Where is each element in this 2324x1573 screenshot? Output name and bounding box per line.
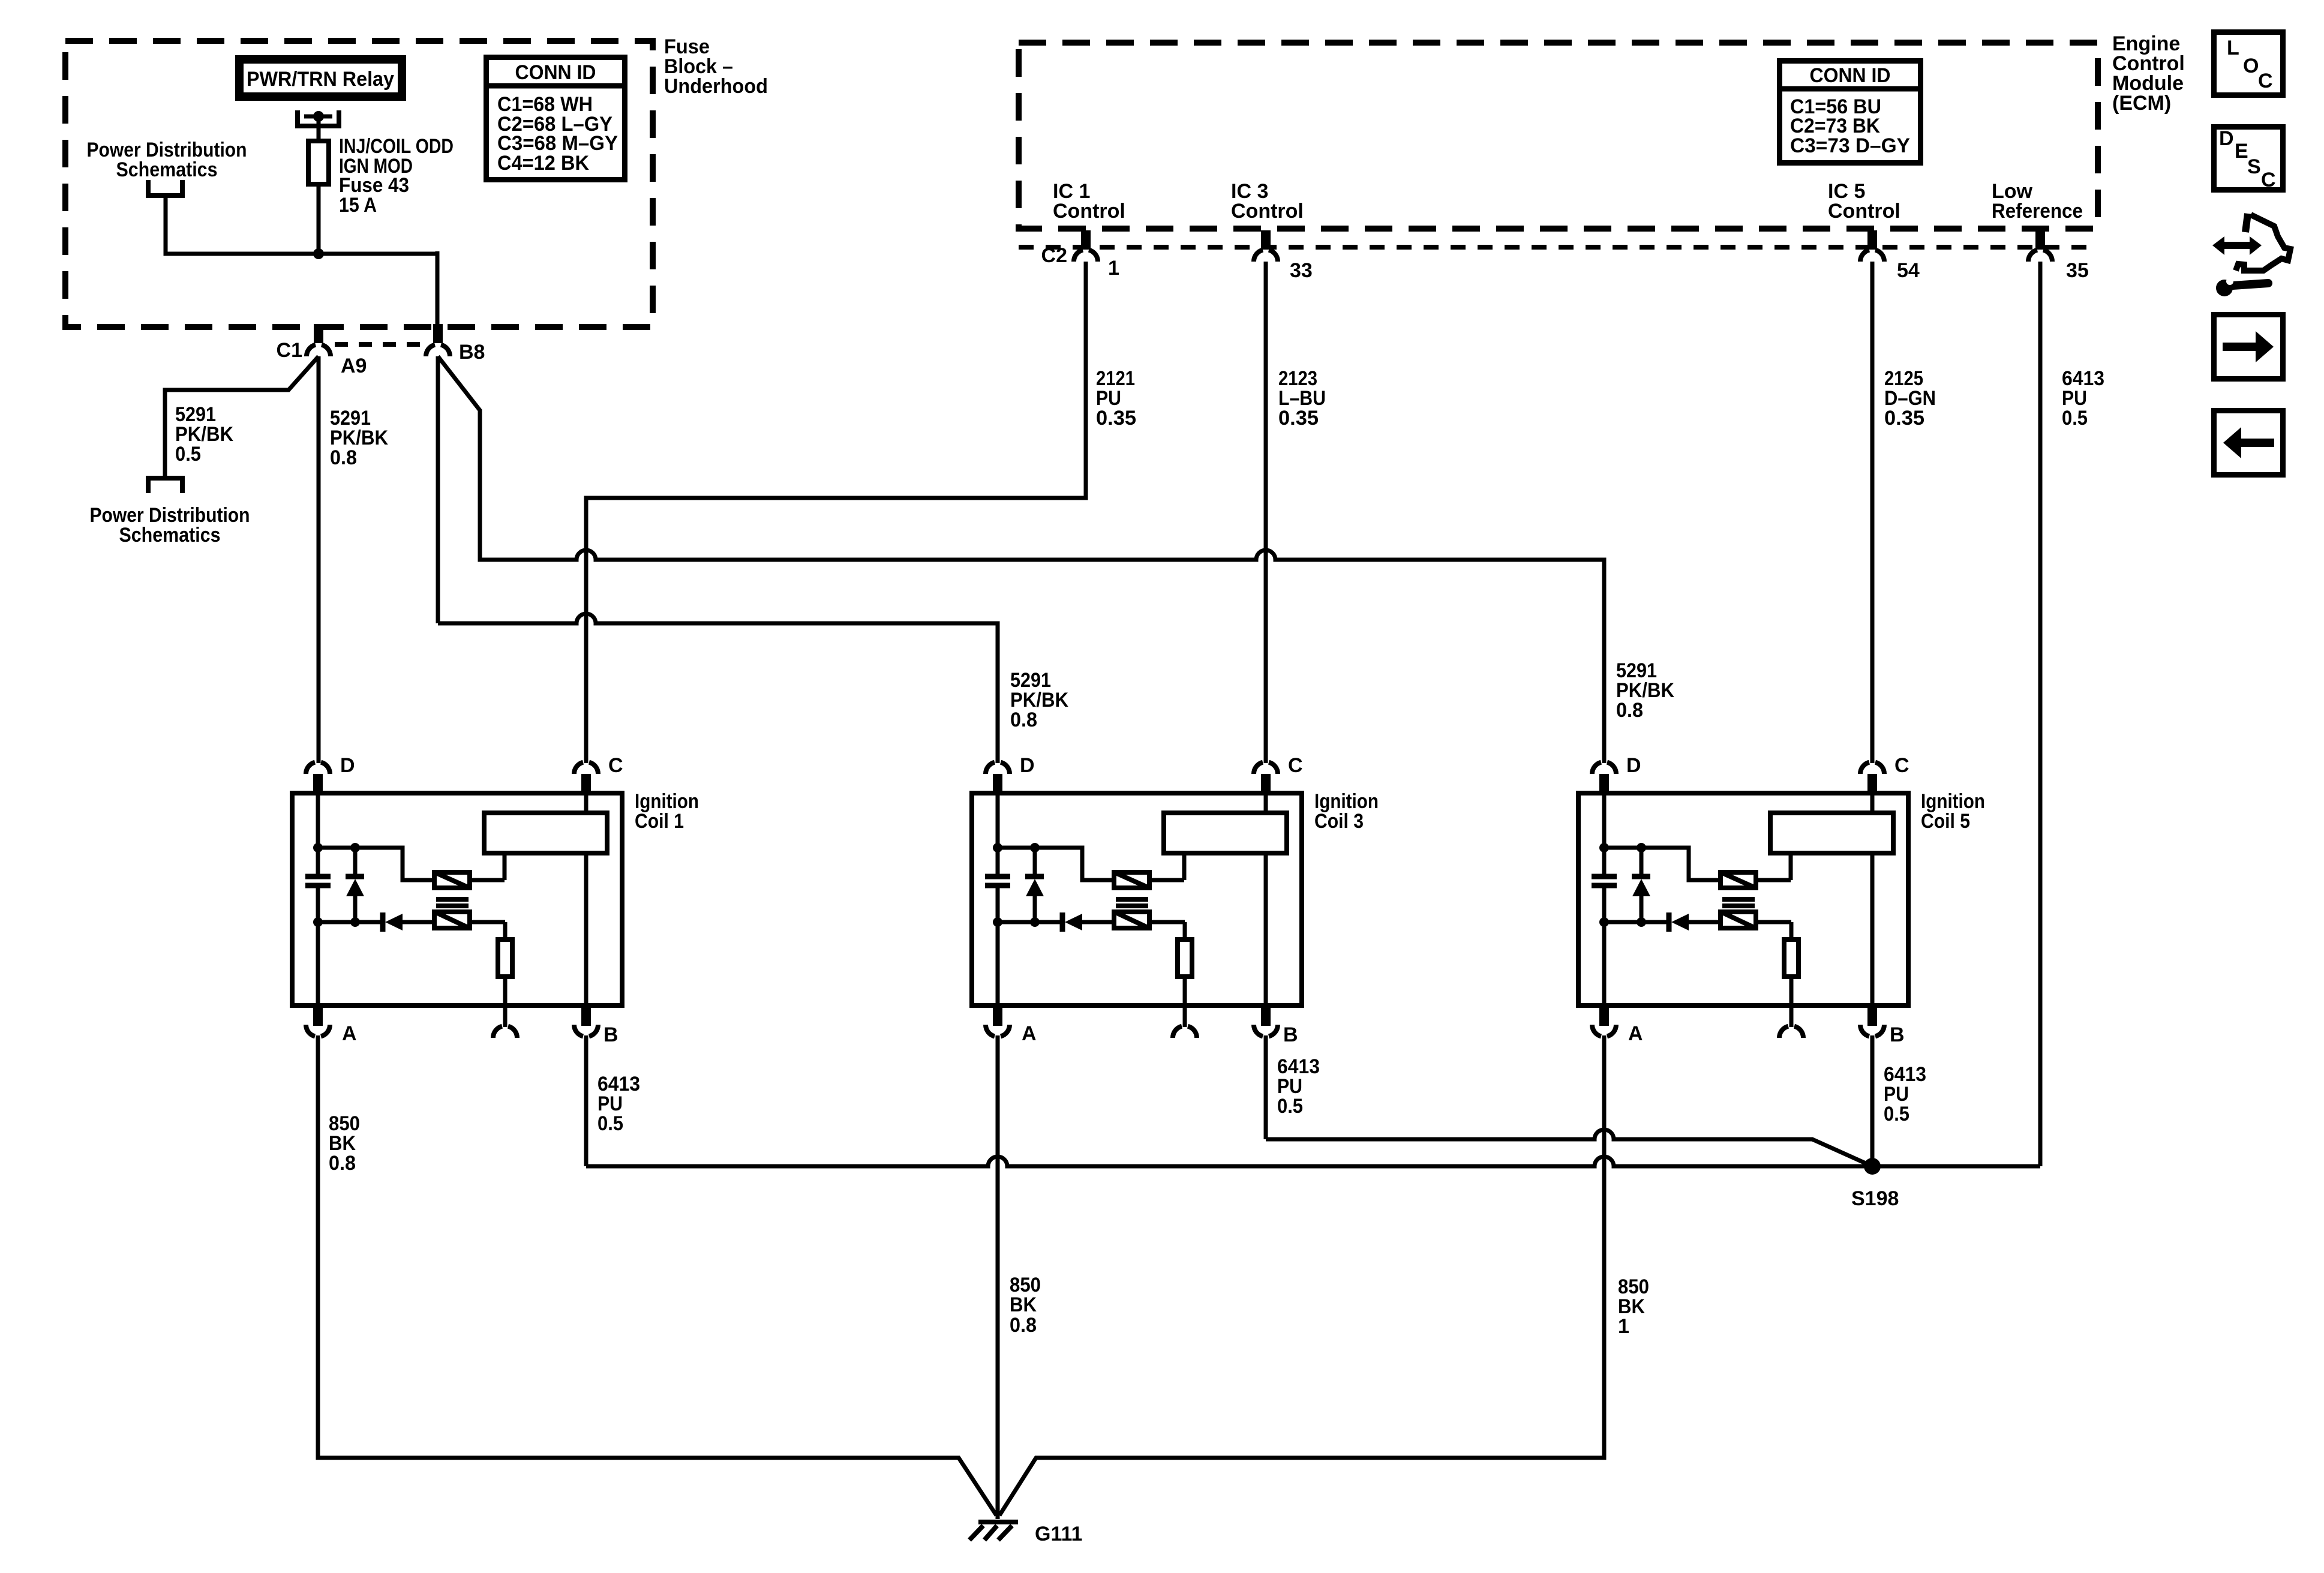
svg-text:15 A: 15 A	[339, 194, 377, 217]
svg-text:Control: Control	[1828, 200, 1900, 223]
label Low Reference	[1992, 180, 2083, 223]
wire 6413 PU low reference from pin 35	[2038, 262, 2043, 1166]
svg-text:D: D	[1020, 754, 1035, 777]
coil 1 pin B connector	[574, 1007, 618, 1046]
svg-text:0.5: 0.5	[1277, 1095, 1303, 1118]
ignition coil 3 box	[972, 790, 1379, 1005]
svg-text:1: 1	[1108, 257, 1119, 280]
coil 1 pin A connector	[306, 1007, 357, 1045]
coil 3 lower internal wire	[998, 920, 1112, 924]
coil 5 secondary winding block	[1758, 813, 1893, 880]
coil 3 C rail wire	[1264, 792, 1268, 1008]
coil 5 internal D rail wire	[1599, 792, 1609, 1008]
svg-text:Schematics: Schematics	[116, 158, 218, 181]
wire 5291 PK/BK 0.5 to power distribution	[165, 356, 319, 478]
coil 1 C rail wire	[584, 792, 588, 1008]
coil 5 unterminated secondary connector	[1779, 1008, 1803, 1038]
svg-text:B: B	[1283, 1023, 1298, 1046]
wire label 6413 PU 0.5 (low reference)	[2062, 367, 2104, 430]
dashed connector line A9	[335, 344, 422, 377]
wire label 2125 D-GN 0.35	[1884, 367, 1936, 430]
coil 5 diode	[1669, 912, 1689, 932]
splice S198	[1851, 1158, 1899, 1210]
coil 1 zener diode	[346, 848, 364, 927]
wire 6413 PU from coil 5 B to splice S198	[1870, 1035, 1875, 1166]
coil 1 internal D rail wire	[313, 792, 323, 1008]
wire label 5291 PK/BK 0.8 (coil 5)	[1616, 659, 1674, 722]
svg-text:0.8: 0.8	[329, 1152, 356, 1175]
coil 3 pin B connector	[1254, 1007, 1298, 1046]
coil 3 pin C connector	[1254, 754, 1303, 793]
svg-text:33: 33	[1290, 259, 1313, 282]
coil 3 resistor	[1152, 922, 1192, 1008]
icon arrow left box	[2214, 411, 2283, 475]
coil 5 C rail wire	[1870, 792, 1875, 1008]
wire label 6413 PU 0.5 (coil 3)	[1277, 1055, 1320, 1118]
svg-text:C: C	[2261, 169, 2276, 191]
wire 850 BK 1 from coil 5 A to G111	[999, 1035, 1604, 1515]
coil 3 igniter secondary driver box	[1114, 912, 1149, 928]
svg-text:0.35: 0.35	[1278, 407, 1319, 430]
svg-text:C: C	[1894, 754, 1909, 777]
coil 1 unterminated secondary connector	[493, 1008, 517, 1038]
icon LOC box	[2214, 32, 2283, 95]
svg-text:C: C	[1288, 754, 1303, 777]
wire label 6413 PU 0.5 (coil 1)	[597, 1073, 640, 1135]
coil 5 capacitor	[1592, 876, 1617, 885]
svg-text:0.5: 0.5	[597, 1112, 623, 1135]
ignition coil 5 box	[1578, 790, 1985, 1005]
fuse block underhood dashed box	[65, 41, 653, 327]
wire 2121 PU from pin 1 to coil 1 C	[586, 262, 1086, 763]
svg-text:0.35: 0.35	[1096, 407, 1136, 430]
svg-text:A9: A9	[341, 355, 367, 377]
coil 3 unterminated secondary connector	[1173, 1008, 1197, 1038]
wire 850 BK 0.8 from coil 3 A to G111	[996, 1035, 1000, 1519]
wire 6413 PU from coil 1 B to splice S198	[586, 1035, 2040, 1166]
ground G111	[969, 1522, 1082, 1545]
coil 3 transformer core bars	[1116, 899, 1148, 906]
svg-text:35: 35	[2066, 259, 2089, 282]
svg-text:C1: C1	[277, 339, 302, 362]
icon arrow right box	[2214, 315, 2283, 379]
wire 2125 D-GN from pin 54 to coil 5 C	[1870, 262, 1875, 763]
coil 1 capacitor	[305, 876, 331, 885]
svg-text:D: D	[340, 754, 355, 777]
fuse F43 INJ/COIL ODD IGN MOD	[308, 141, 329, 255]
svg-text:C3=73 D–GY: C3=73 D–GY	[1790, 134, 1910, 157]
svg-text:0.5: 0.5	[1884, 1103, 1909, 1125]
svg-text:D: D	[1626, 754, 1641, 777]
coil 3 pin D connector	[986, 754, 1035, 793]
svg-text:Coil 1: Coil 1	[635, 810, 684, 833]
coil 3 capacitor	[985, 876, 1010, 885]
label IC 1 Control	[1053, 180, 1125, 223]
svg-text:A: A	[1628, 1022, 1643, 1045]
coil 3 igniter primary driver box	[1114, 872, 1149, 888]
svg-text:S: S	[2247, 155, 2261, 178]
svg-text:C2: C2	[1041, 244, 1067, 267]
wire B8 branch to coil 5 D	[438, 356, 1604, 763]
svg-text:1: 1	[1618, 1315, 1629, 1338]
coil 1 igniter primary driver box	[434, 872, 470, 888]
wire label 5291 PK/BK 0.5	[175, 403, 233, 466]
wire 6413 PU from coil 3 B to splice S198	[1266, 1035, 1872, 1166]
svg-text:CONN ID: CONN ID	[515, 61, 596, 84]
svg-text:Coil 5: Coil 5	[1921, 810, 1970, 833]
wire label 6413 PU 0.5 (coil 5)	[1884, 1063, 1926, 1125]
coil 5 pin C connector	[1860, 754, 1909, 793]
wire label 2123 L-BU 0.35	[1278, 367, 1326, 430]
wire label 2121 PU 0.35	[1096, 367, 1136, 430]
ECM title	[2112, 32, 2185, 115]
ECM connector C2 dotted line	[1019, 244, 2096, 267]
node junction on A9 feed	[313, 248, 324, 259]
wire label 850 BK 0.8 (coil 3)	[1010, 1274, 1041, 1337]
coil 5 pin A connector	[1592, 1007, 1643, 1045]
svg-text:Schematics: Schematics	[119, 524, 221, 547]
wire label 5291 PK/BK 0.8 (coil 1)	[330, 407, 388, 469]
off-page ref: power distribution (top)	[87, 139, 247, 196]
icon harness connector with wrench	[2212, 214, 2290, 296]
svg-text:C: C	[2258, 70, 2273, 92]
wire from power distribution bracket to node A9	[166, 196, 437, 254]
svg-text:(ECM): (ECM)	[2112, 92, 2171, 115]
svg-text:A: A	[1022, 1022, 1037, 1045]
svg-text:0.35: 0.35	[1884, 407, 1924, 430]
svg-text:C4=12 BK: C4=12 BK	[497, 152, 589, 175]
svg-text:B: B	[603, 1023, 618, 1046]
svg-text:Reference: Reference	[1992, 200, 2083, 223]
coil 1 transformer core bars	[436, 899, 469, 906]
svg-text:BK: BK	[1010, 1293, 1037, 1316]
wire 850 BK 0.8 from coil 1 A to G111	[318, 1035, 996, 1515]
coil 5 igniter primary driver box	[1721, 872, 1756, 888]
svg-text:G111: G111	[1035, 1523, 1082, 1545]
label IC 5 Control	[1828, 180, 1900, 223]
wire feed to B8	[436, 251, 440, 327]
coil 5 pin B connector	[1860, 1007, 1905, 1046]
coil 5 transformer core bars	[1722, 899, 1755, 906]
svg-text:0.8: 0.8	[1616, 699, 1643, 722]
coil 5 zener diode	[1632, 848, 1650, 927]
svg-text:B: B	[1890, 1023, 1905, 1046]
coil 3 top internal wire	[998, 843, 1112, 880]
coil 1 top internal wire	[318, 843, 432, 880]
svg-text:E: E	[2235, 140, 2248, 163]
coil 1 igniter secondary driver box	[434, 912, 470, 928]
coil 5 top internal wire	[1604, 843, 1718, 880]
svg-text:S198: S198	[1851, 1187, 1899, 1210]
ECM pin 35 connector	[2028, 230, 2089, 282]
wire label 5291 PK/BK 0.8 (coil 3)	[1010, 669, 1068, 731]
svg-text:0.5: 0.5	[175, 443, 201, 466]
coil 5 pin D connector	[1592, 754, 1641, 793]
off-page ref: power distribution (bottom)	[90, 478, 250, 547]
svg-text:C: C	[608, 754, 623, 777]
svg-text:CONN ID: CONN ID	[1810, 64, 1891, 87]
svg-text:0.8: 0.8	[1010, 1314, 1037, 1337]
coil 1 lower internal wire	[318, 920, 432, 924]
wire label 850 BK 0.8 (coil 1)	[329, 1112, 360, 1175]
wire B8 branch to coil 3 D	[438, 356, 998, 763]
svg-text:Coil 3: Coil 3	[1314, 810, 1364, 833]
connector B8 pin	[426, 324, 485, 364]
relay PWR/TRN Relay label box	[235, 55, 406, 101]
relay K1 contact symbol	[298, 110, 339, 141]
svg-text:0.8: 0.8	[330, 446, 357, 469]
ECM pin 1 connector	[1074, 230, 1119, 280]
coil 3 pin A connector	[986, 1007, 1037, 1045]
fuse block underhood title	[664, 35, 768, 98]
coil 1 pin C connector	[574, 754, 623, 793]
CONN ID table (fuse block)	[484, 58, 627, 180]
connector C1 pin	[277, 324, 331, 362]
wire label 850 BK 1 (coil 5)	[1618, 1275, 1649, 1338]
svg-text:B8: B8	[459, 341, 485, 364]
svg-text:O: O	[2243, 55, 2259, 77]
coil 1 resistor	[472, 922, 512, 1008]
coil 5 igniter secondary driver box	[1721, 912, 1756, 928]
ECM pin 33 connector	[1254, 230, 1313, 282]
svg-text:54: 54	[1897, 259, 1920, 282]
ignition coil 1 box	[292, 790, 699, 1005]
ECM pin 54 connector	[1860, 230, 1920, 282]
wire 2123 L-BU from pin 33 to coil 3 C	[1264, 262, 1268, 763]
coil 1 secondary winding block	[472, 813, 607, 880]
coil 3 internal D rail wire	[993, 792, 1002, 1008]
coil 5 lower internal wire	[1604, 920, 1718, 924]
fuse 43 value label	[339, 135, 454, 217]
label IC 3 Control	[1231, 180, 1304, 223]
coil 3 zener diode	[1025, 848, 1044, 927]
icon DESC box	[2214, 127, 2283, 192]
engine control module dashed box	[1019, 43, 2098, 229]
coil 1 diode	[383, 912, 403, 932]
coil 1 pin D connector	[306, 754, 355, 793]
coil 5 resistor	[1758, 922, 1798, 1008]
svg-text:Control: Control	[1231, 200, 1304, 223]
coil 3 diode	[1062, 912, 1082, 932]
svg-text:D: D	[2219, 127, 2234, 150]
svg-text:PWR/TRN Relay: PWR/TRN Relay	[247, 68, 394, 91]
wire 5291 PK/BK 0.8 from C1 to coil 1 D	[317, 356, 321, 763]
svg-text:0.8: 0.8	[1010, 709, 1037, 731]
svg-text:L: L	[2227, 37, 2239, 59]
svg-text:A: A	[342, 1022, 357, 1045]
coil 3 secondary winding block	[1152, 813, 1287, 880]
svg-text:0.5: 0.5	[2062, 407, 2088, 430]
svg-text:Underhood: Underhood	[664, 75, 768, 98]
svg-text:Control: Control	[1053, 200, 1125, 223]
CONN ID table (ECM)	[1777, 61, 1923, 163]
